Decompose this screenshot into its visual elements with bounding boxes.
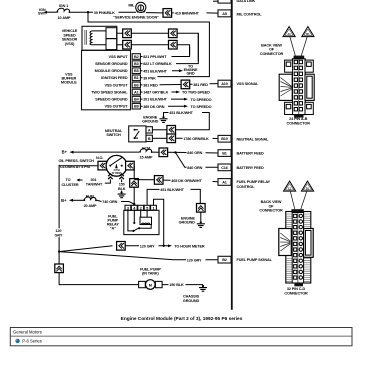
svg-text:B+: B+ — [61, 198, 67, 203]
svg-text:32 PIN C-D: 32 PIN C-D — [287, 287, 306, 291]
svg-text:822 LT GRN/BLK: 822 LT GRN/BLK — [143, 62, 172, 66]
pin 2 relay — [138, 205, 144, 210]
relay body internals — [124, 210, 159, 234]
svg-text:10 AMP: 10 AMP — [58, 16, 71, 20]
svg-text:TO: TO — [66, 178, 71, 182]
svg-text:B: B — [148, 137, 151, 141]
svg-text:381 RED: 381 RED — [193, 83, 208, 87]
pin oil switch bottom left — [105, 174, 113, 183]
svg-text:BATTERY FEED: BATTERY FEED — [237, 166, 265, 170]
relay fuel pump relay "A" — [107, 214, 120, 230]
svg-text:CONTROL: CONTROL — [237, 185, 256, 189]
connector vertical on oil switch feed — [130, 179, 139, 188]
connector inline on MIL circuit — [163, 9, 172, 18]
svg-text:840 ORN: 840 ORN — [187, 166, 202, 170]
svg-text:CLUSTER: CLUSTER — [61, 183, 78, 187]
wire 419 BRN/WHT — [172, 12, 218, 16]
svg-text:451 BLK/WHT: 451 BLK/WHT — [169, 111, 193, 115]
svg-text:B10: B10 — [221, 137, 228, 141]
svg-text:15 AMP: 15 AMP — [140, 155, 153, 159]
svg-text:IGN 1: IGN 1 — [59, 4, 68, 8]
svg-text:840 ORN: 840 ORN — [187, 151, 202, 155]
pin A1 TWO SPEED SIGNAL — [91, 89, 140, 95]
svg-text:DATA LINK: DATA LINK — [237, 0, 256, 3]
svg-text:381 RED: 381 RED — [143, 84, 158, 88]
pin B1 IGNITION FEED — [101, 75, 140, 81]
svg-text:TO SPEEDO: TO SPEEDO — [191, 105, 212, 109]
svg-text:419 BRN/WHT: 419 BRN/WHT — [175, 12, 200, 16]
connector on ECM fuse output — [159, 148, 168, 157]
ground chassis ground — [183, 285, 207, 303]
node fork 120 GRY — [58, 250, 60, 252]
svg-text:B2: B2 — [222, 258, 227, 262]
pin B3 SENSOR GROUND — [95, 61, 140, 67]
wire 451 BLK/WHT to engine ground — [140, 69, 183, 73]
svg-text:MIL: MIL — [128, 4, 135, 8]
connector on 465 wire — [154, 176, 163, 185]
svg-text:20 AMP: 20 AMP — [84, 204, 97, 208]
wire 150 BLK oil switch — [117, 182, 127, 191]
wire 840 ORN to B1 — [168, 151, 218, 155]
ECM pin B10 NEUTRAL SIGNAL — [218, 135, 269, 142]
svg-text:VEHICLE: VEHICLE — [62, 29, 78, 33]
fuse FUEL 20 AMP — [83, 194, 97, 207]
svg-text:N.O.: N.O. — [96, 156, 103, 160]
connector on VSS bottom wire (left) — [123, 40, 132, 49]
connector vertical engine ground — [197, 204, 206, 213]
svg-text:SPEED: SPEED — [63, 33, 76, 37]
wire 389 DK GRN TO SPEEDO — [140, 105, 211, 109]
svg-text:TO TWO-SPEED: TO TWO-SPEED — [182, 91, 210, 95]
svg-text:OF: OF — [269, 48, 275, 52]
wire 465 DK GRN/WHT to A1 — [134, 179, 218, 183]
wire VSS bottom terminal — [117, 45, 190, 55]
svg-text:P-6 Series: P-6 Series — [22, 339, 42, 344]
wire 1786 ORN/BLK — [176, 137, 219, 141]
ECM pin A1 FUEL PUMP RELAY CONTROL — [218, 179, 271, 190]
svg-text:451 BLK/WHT: 451 BLK/WHT — [143, 69, 167, 73]
svg-text:BATTERY FEED: BATTERY FEED — [237, 152, 265, 156]
svg-text:TWO SPEED SIGNAL: TWO SPEED SIGNAL — [91, 90, 128, 94]
wire fuse to junction — [70, 11, 88, 13]
node B+ ignition switch feed — [38, 8, 53, 16]
pin B2 VSS INPUT — [109, 54, 141, 60]
wire 821 PPL/WHT — [140, 47, 189, 59]
svg-text:General Motors: General Motors — [13, 329, 42, 334]
svg-text:CONNECTOR: CONNECTOR — [260, 52, 284, 56]
svg-text:389 DK GRN: 389 DK GRN — [143, 105, 165, 109]
svg-text:OF: OF — [268, 204, 274, 208]
wire 840 ORN branch to C16 — [175, 152, 218, 170]
connector on VSS top wire (right) — [169, 29, 178, 38]
fuse IGN 1 10 AMP — [53, 4, 72, 20]
svg-text:MIL CONTROL: MIL CONTROL — [237, 12, 263, 16]
svg-text:B5: B5 — [134, 69, 139, 73]
svg-text:A1: A1 — [134, 90, 139, 94]
svg-text:B2: B2 — [134, 55, 139, 59]
footer info table General Motors — [10, 328, 352, 346]
svg-text:CONNECTOR: CONNECTOR — [287, 122, 311, 126]
svg-text:"SERVICE ENGINE SOON": "SERVICE ENGINE SOON" — [113, 16, 159, 20]
svg-text:1487 GRY/BLK: 1487 GRY/BLK — [143, 91, 168, 95]
svg-text:B1: B1 — [222, 152, 227, 156]
svg-text:BLK: BLK — [118, 187, 126, 191]
node B+ fuel feed — [61, 198, 83, 203]
label VSS BUFFER MODULE — [61, 72, 77, 84]
wire 381 RED right — [190, 83, 218, 87]
svg-text:VSS INPUT: VSS INPUT — [109, 55, 129, 59]
ECM connector main line — [231, 0, 233, 310]
pin B neutral switch — [146, 135, 167, 141]
ECM pin C16 BATTERY FEED — [218, 164, 264, 171]
node TO ENGINE GND — [184, 65, 198, 76]
wire fork to hour meter row — [59, 246, 112, 252]
wire oil switch to 120 GRY vertical — [59, 165, 106, 252]
ground oil switch 150 BLK — [118, 191, 126, 197]
svg-text:B1: B1 — [134, 76, 139, 80]
svg-text:BACK VIEW: BACK VIEW — [261, 43, 282, 47]
connector 32 pin C-D back view — [259, 181, 313, 295]
connector on 120 GRY hour meter row — [117, 242, 126, 251]
svg-text:SENSOR: SENSOR — [62, 38, 78, 42]
connector on VSS top wire (left) — [123, 29, 132, 38]
wire fork to B2 row — [59, 252, 218, 260]
ECM pin partial top edge — [213, 0, 256, 3]
svg-text:GROUND: GROUND — [183, 299, 200, 303]
pin B6 VSS OUTPUT — [104, 82, 140, 88]
svg-text:B3: B3 — [134, 62, 139, 66]
wire 301 TAN/WHT TO CLUSTER — [61, 178, 103, 187]
svg-text:CONNECTOR: CONNECTOR — [284, 291, 308, 295]
svg-text:821 PPL/WHT: 821 PPL/WHT — [143, 55, 167, 59]
lamp MIL "SERVICE ENGINE SOON" — [113, 2, 159, 19]
wire 201 BLK/WHT TO SPEEDO — [140, 98, 211, 102]
wire 822 LT GRN/BLK — [140, 33, 198, 66]
svg-text:SENSOR GROUND: SENSOR GROUND — [95, 62, 128, 66]
connector oil switch right pin — [126, 161, 135, 170]
svg-text:B6: B6 — [134, 83, 139, 87]
wire 1487 GRY/BLK TO TWO-SPEED — [140, 91, 210, 95]
svg-text:B+: B+ — [62, 150, 68, 155]
wire 451 BLK/WHT neutral switch to ground — [164, 111, 210, 130]
wire 451 BLK/WHT relay pin 5 to engine ground — [147, 188, 200, 205]
fuse ECM 15 AMP — [139, 147, 159, 160]
wire 39 PNK from ignition junction — [88, 12, 209, 80]
svg-text:120 GRY: 120 GRY — [140, 244, 155, 248]
svg-text:451 BLK/WHT: 451 BLK/WHT — [160, 188, 184, 192]
svg-text:VSS SIGNAL: VSS SIGNAL — [237, 82, 260, 86]
pin B8 VSS OUTPUT — [104, 103, 140, 109]
node junction 840 ORN — [174, 151, 176, 153]
svg-text:FUEL PUMP SIGNAL: FUEL PUMP SIGNAL — [237, 258, 273, 262]
svg-text:A1: A1 — [222, 180, 227, 184]
svg-text:465 DK GRN/WHT: 465 DK GRN/WHT — [171, 179, 202, 183]
svg-text:120 GRY: 120 GRY — [187, 258, 202, 262]
wire oil switch right to relay pin 4 — [133, 166, 135, 204]
pin oil switch bottom right — [119, 174, 124, 192]
svg-text:1786 ORN/BLK: 1786 ORN/BLK — [183, 137, 209, 141]
connector neutral switch A — [167, 126, 176, 135]
wire 39 PNK/BLK to MIL — [88, 11, 136, 15]
svg-text:MODULE GROUND: MODULE GROUND — [95, 69, 128, 73]
wire 150 BLK to chassis ground — [162, 283, 203, 287]
svg-text:OIL PRESS. SWITCH: OIL PRESS. SWITCH — [59, 159, 95, 163]
pin B5 MODULE GROUND — [95, 68, 141, 74]
svg-text:GRY: GRY — [55, 233, 63, 237]
svg-text:IGNITION FEED: IGNITION FEED — [101, 76, 128, 80]
svg-text:FUEL PUMP RELAY: FUEL PUMP RELAY — [237, 180, 271, 184]
wire 740 ORN to relay pin 4 — [97, 200, 134, 204]
ECM pin B2 FUEL PUMP SIGNAL — [218, 256, 273, 263]
svg-text:Engine Control Module (Part 2: Engine Control Module (Part 2 of 3), 199… — [121, 316, 243, 322]
wire 120 GRY TO HOUR METER — [125, 244, 205, 248]
svg-text:A10: A10 — [221, 82, 228, 86]
switch oil pressure switch — [106, 155, 127, 176]
ECM pin B1 BATTERY FEED — [218, 150, 264, 157]
svg-text:(IN TANK): (IN TANK) — [142, 272, 159, 276]
svg-text:VSS OUTPUT: VSS OUTPUT — [104, 83, 128, 87]
vehicle speed sensor VSS — [82, 26, 117, 50]
svg-text:740 ORN: 740 ORN — [102, 200, 117, 204]
connector oil switch left pin — [98, 161, 107, 170]
node B+ feed to ECM fuse — [62, 150, 139, 155]
svg-text:VSS OUTPUT: VSS OUTPUT — [104, 105, 128, 109]
pin 5 relay — [144, 205, 150, 210]
svg-text:MODULE: MODULE — [61, 81, 77, 85]
ground engine ground (neutral switch) — [142, 116, 167, 124]
svg-text:201 BLK/WHT: 201 BLK/WHT — [143, 98, 167, 102]
svg-text:TO HOUR METER: TO HOUR METER — [174, 245, 205, 249]
label OIL PRESS. SWITCH — [59, 156, 104, 169]
svg-text:(VSS): (VSS) — [65, 42, 75, 46]
ground engine ground (relay) — [179, 212, 205, 227]
wire 120 GRY label — [54, 228, 64, 237]
svg-text:TAN/WHT: TAN/WHT — [86, 183, 103, 187]
pin A neutral switch — [146, 127, 167, 133]
node junction 39 PNK/BLK — [87, 11, 89, 13]
svg-text:301: 301 — [91, 178, 97, 182]
pin 3 relay — [125, 205, 131, 210]
connector vertical on 120 GRY drop — [55, 264, 64, 273]
svg-text:SPEEDO GROUND: SPEEDO GROUND — [95, 98, 128, 102]
svg-text:CONNECTOR: CONNECTOR — [259, 209, 283, 213]
wire VSS top terminal — [117, 33, 199, 61]
pin B4 SPEEDO GROUND — [95, 96, 140, 102]
pin 1 relay — [151, 205, 157, 210]
svg-text:150 BLK: 150 BLK — [169, 283, 184, 287]
node junction relay pin 4 — [133, 203, 136, 206]
pin 4 relay — [131, 205, 137, 210]
ECM pin A10 VSS SIGNAL — [218, 80, 259, 87]
svg-text:A: A — [148, 129, 151, 133]
wire relay pin 1 to fuel pump feed — [154, 199, 164, 246]
module VSS buffer module box — [82, 50, 131, 109]
switch neutral switch — [105, 126, 146, 142]
svg-text:FUEL PUMP: FUEL PUMP — [140, 267, 161, 271]
wire MIL to connector — [146, 12, 163, 14]
wire 120 GRY down to fuel pump — [59, 252, 139, 285]
svg-text:GND: GND — [186, 72, 194, 76]
wire 381 RED left — [140, 84, 181, 88]
svg-text:A5: A5 — [222, 12, 227, 16]
label VEHICLE SPEED SENSOR (VSS) — [62, 29, 78, 46]
motor fuel pump (in tank) — [139, 267, 162, 289]
svg-text:SWITCH: SWITCH — [106, 133, 121, 137]
ECM pin A5 MIL CONTROL — [218, 10, 262, 17]
svg-text:GROUND: GROUND — [142, 120, 159, 124]
svg-text:24 PIN A-B: 24 PIN A-B — [289, 117, 307, 121]
svg-text:GROUND: GROUND — [179, 221, 196, 225]
svg-text:39 PNK: 39 PNK — [143, 76, 156, 80]
svg-text:C16: C16 — [221, 166, 228, 170]
svg-text:B8: B8 — [134, 105, 139, 109]
svg-text:M: M — [149, 283, 152, 287]
connector neutral switch B — [167, 134, 176, 143]
connector on 381 RED — [181, 80, 190, 89]
svg-text:BACK VIEW: BACK VIEW — [261, 200, 282, 204]
svg-text:39 PNK/BLK: 39 PNK/BLK — [94, 11, 115, 15]
svg-text:TO SPEEDO: TO SPEEDO — [191, 98, 212, 102]
svg-text:NEUTRAL SIGNAL: NEUTRAL SIGNAL — [237, 137, 270, 141]
connector on VSS bottom wire (right) — [169, 40, 178, 49]
connector 24 pin A-B back view — [260, 27, 314, 126]
svg-text:"A": "A" — [110, 227, 116, 231]
